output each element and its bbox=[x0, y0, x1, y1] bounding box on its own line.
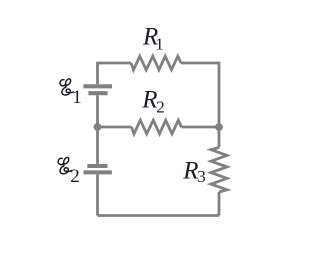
battery E1 long plate bbox=[83, 84, 112, 88]
resistor R1 bbox=[131, 56, 181, 70]
wire middle-right: R2 to node B bbox=[182, 126, 220, 129]
wire bottom-left: left rail from battery E2 to bottom-left corner bbox=[96, 174, 99, 215]
resistor R2 bbox=[132, 120, 182, 134]
wire bottom: bottom rail bbox=[98, 214, 220, 217]
svg-text:R: R bbox=[182, 158, 198, 185]
resistor R3 bbox=[211, 148, 227, 193]
node B junction dot bbox=[215, 123, 223, 131]
svg-text:2: 2 bbox=[70, 166, 80, 187]
svg-text:1: 1 bbox=[72, 87, 82, 108]
svg-text:R: R bbox=[141, 87, 157, 114]
wire top-left: left rail upper segment and top wire to R1 bbox=[98, 63, 132, 84]
wire middle-left: node A to R2 bbox=[98, 126, 132, 129]
battery E1 short plate bbox=[88, 91, 107, 95]
svg-text:3: 3 bbox=[197, 167, 206, 186]
label E1 script-E bbox=[60, 78, 73, 95]
wire bottom-right: right rail below R3 to bottom-right corner bbox=[218, 192, 221, 216]
svg-text:2: 2 bbox=[156, 97, 165, 116]
wire top-right: top wire from R1 to right rail, down to node B bbox=[181, 63, 219, 148]
battery E2 long plate bbox=[84, 170, 112, 174]
label E2 script-E bbox=[58, 157, 71, 174]
svg-text:1: 1 bbox=[155, 34, 164, 53]
wire left-middle: left rail between battery E1 and battery E2 through node A bbox=[96, 95, 99, 164]
battery E2 short plate bbox=[87, 164, 107, 168]
node A junction dot bbox=[94, 123, 102, 131]
